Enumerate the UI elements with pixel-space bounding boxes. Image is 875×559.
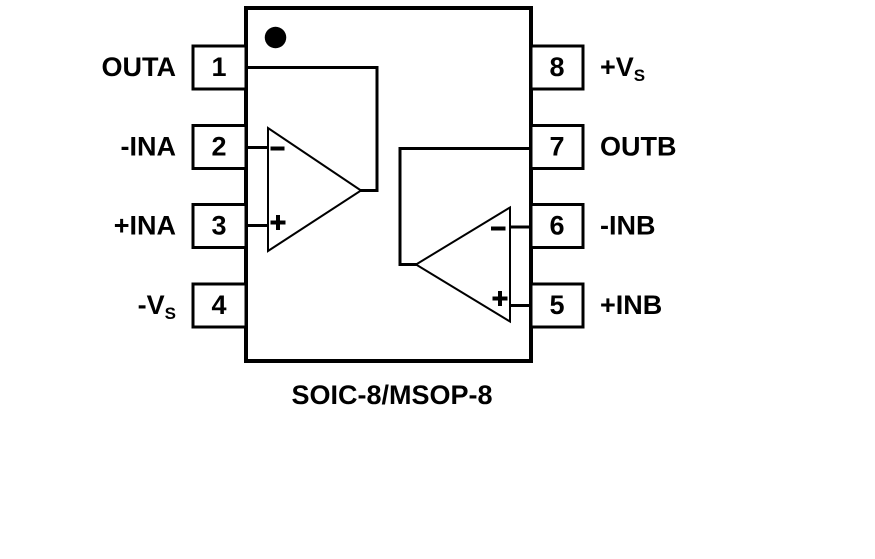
wire pin1 to op-amp A output (246, 68, 377, 191)
pin 2 box (193, 126, 246, 169)
svg-text:3: 3 (211, 211, 226, 241)
svg-text:4: 4 (211, 290, 226, 320)
op-amp U1A (268, 128, 361, 251)
svg-text:+INA: +INA (114, 211, 176, 241)
pin 6 box (531, 205, 583, 248)
op-amp U1B (416, 208, 510, 322)
op-amp B minus symbol (491, 227, 506, 231)
svg-text:-VS: -VS (138, 290, 176, 323)
wire pin3 to op-amp A non-inverting input (246, 224, 268, 227)
svg-text:7: 7 (549, 132, 564, 162)
pin 5 box (531, 284, 583, 327)
svg-text:6: 6 (549, 211, 564, 241)
wire pin6 to op-amp B inverting input (509, 226, 531, 229)
pin 3 box (193, 205, 246, 248)
pin 7 box (531, 126, 583, 169)
pin 8 box (531, 46, 583, 89)
svg-text:5: 5 (549, 290, 564, 320)
wire op-amp B output to pin7 (400, 149, 531, 265)
wire pin5 to op-amp B non-inverting input (509, 304, 531, 307)
svg-text:8: 8 (549, 52, 564, 82)
op-amp B plus symbol (493, 291, 508, 306)
svg-text:2: 2 (211, 132, 226, 162)
svg-text:+VS: +VS (600, 52, 645, 85)
svg-text:OUTB: OUTB (600, 132, 677, 162)
op-amp A plus symbol (271, 215, 286, 230)
pin 1 box (193, 46, 246, 89)
svg-text:1: 1 (211, 52, 226, 82)
svg-text:OUTA: OUTA (102, 52, 177, 82)
IC body U1 (SOIC-8/MSOP-8 package outline) (246, 8, 531, 361)
wire pin2 to op-amp A inverting input (246, 146, 268, 149)
pin 1 marker dot (265, 27, 287, 49)
svg-text:SOIC-8/MSOP-8: SOIC-8/MSOP-8 (291, 380, 492, 410)
svg-text:-INA: -INA (121, 132, 177, 162)
pin 4 box (193, 284, 246, 327)
svg-text:-INB: -INB (600, 211, 656, 241)
svg-text:+INB: +INB (600, 290, 662, 320)
op-amp A minus symbol (271, 147, 285, 151)
